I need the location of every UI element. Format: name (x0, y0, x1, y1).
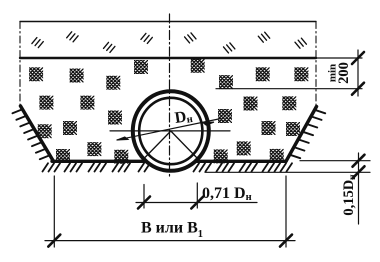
pipe vertical centerline (169, 14, 171, 179)
0,71Dn extension line right (196, 183, 198, 208)
B dimension extension line right (285, 176, 287, 247)
label min 200 (rotated) (327, 64, 339, 82)
svg-text:200: 200 (336, 62, 352, 84)
0,15Dn extension line bottom (pipe invert level) (205, 171, 370, 173)
0,15Dn dimension line (358, 153, 360, 224)
label Dn (174, 108, 194, 128)
Dn arrowhead right (203, 122, 214, 125)
right trench slope wall (286, 107, 317, 162)
trench bottom line (52, 160, 286, 163)
0,15Dn extension line top (trench bottom level) (300, 160, 370, 162)
bedding angle line right (171, 131, 198, 159)
0,71Dn tick left (138, 197, 150, 209)
B tick right (280, 235, 292, 247)
left trench slope wall (21, 106, 54, 161)
upper soil layer hatch group 6 (224, 43, 235, 53)
label 0,15Dn (rotated) (341, 174, 358, 216)
B tick left (48, 235, 60, 247)
left slope ground hatching (13, 109, 50, 159)
bedding angle line left (144, 131, 171, 159)
upper soil layer hatch group 2 (67, 32, 78, 42)
B dimension line (45, 240, 295, 242)
0,15Dn tick bottom (353, 166, 365, 178)
right boundary dash-dot line (315, 22, 317, 108)
upper soil layer hatch group 4 (141, 33, 152, 43)
left boundary dash-dot line (19, 22, 21, 107)
min 200 dimension line (357, 50, 359, 96)
0,71Dn dimension line (136, 202, 257, 204)
Dn diameter dimension line (117, 119, 221, 141)
0,71Dn tick right (191, 197, 203, 209)
svg-text:0,71 Dн: 0,71 Dн (202, 185, 252, 203)
label 0,71 Dn (202, 185, 252, 203)
upper soil layer hatch group 7 (258, 32, 269, 42)
ground surface line (20, 57, 316, 59)
0,15Dn tick top (353, 155, 365, 167)
top boundary line of backfill (20, 21, 316, 23)
svg-text:0,15Dн: 0,15Dн (341, 174, 358, 216)
0,71Dn extension line left (143, 185, 145, 209)
compacted fill crosshatch marks (27, 57, 310, 166)
label B or B1 (141, 220, 203, 241)
Dn arrowhead left (117, 137, 128, 140)
B dimension extension line left (53, 176, 55, 247)
pipe horizontal centerline (110, 130, 230, 132)
upper soil layer hatch group 5 (185, 33, 196, 43)
upper soil layer hatch group 3 (104, 42, 115, 52)
min 200 extension line bottom (pipe top tangent) (216, 88, 362, 90)
upper soil layer hatch group 1 (32, 38, 43, 48)
min 200 tick bottom (352, 83, 364, 95)
min 200 extension line top (ground) (316, 57, 362, 59)
min 200 tick top (352, 52, 364, 64)
upper soil layer hatch group 8 (295, 38, 306, 48)
pipe inner wall circle (139, 98, 202, 164)
right slope ground hatching (290, 110, 326, 158)
trench bottom ground hatching (43, 163, 293, 171)
pipe outer wall circle (133, 91, 209, 171)
